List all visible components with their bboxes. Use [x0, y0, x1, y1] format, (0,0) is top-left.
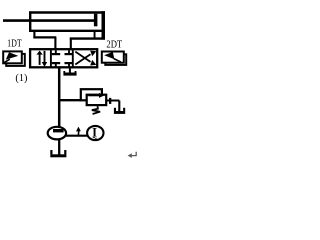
wire right jog down to valve — [70, 38, 72, 51]
valve divider right — [72, 49, 74, 67]
relief valve flow arrow — [89, 94, 100, 96]
solenoid 1DT box — [3, 51, 22, 63]
relief valve outlet stub — [109, 98, 111, 104]
shaft rotation arrow — [77, 131, 80, 137]
tank at relief valve outlet — [114, 111, 125, 114]
svg-text:(1): (1) — [15, 72, 27, 84]
cylinder bottom wall — [29, 30, 105, 32]
svg-text:1DT: 1DT — [7, 38, 22, 50]
center position blocked port bottom-left — [55, 64, 57, 67]
motor circle — [87, 126, 103, 140]
cylinder right end wall — [102, 11, 106, 39]
relief valve back square — [81, 89, 102, 100]
pump circle — [48, 127, 66, 140]
cylinder left end cap — [29, 11, 31, 32]
tank at pump suction — [50, 154, 66, 157]
right position crossed arrow 1 — [75, 54, 90, 64]
solenoid 2DT slash arrow — [114, 59, 121, 62]
wire valve T-port to tank — [69, 67, 71, 72]
svg-text:2DT: 2DT — [106, 39, 122, 51]
right position crossed arrow 2 — [75, 52, 90, 62]
wire left jog horizontal — [33, 36, 56, 38]
solenoid 2DT shadow box — [105, 54, 126, 65]
valve divider left — [50, 49, 52, 67]
cylinder piston rod — [3, 19, 95, 22]
wire left jog down to valve — [54, 37, 56, 50]
wire valve P-port to pump — [58, 67, 61, 127]
cylinder piston — [94, 14, 98, 27]
solenoid 1DT slash arrow — [4, 59, 10, 62]
center position blocked port top-left — [55, 50, 57, 53]
tank at valve T-port — [63, 73, 76, 76]
relief valve spring — [92, 106, 100, 114]
wire branch to relief valve — [59, 99, 81, 101]
center position blocked port top-right — [68, 50, 70, 53]
left position down arrow — [44, 51, 46, 62]
paragraph return mark — [128, 152, 137, 158]
solenoid 1DT shadow box — [6, 54, 25, 66]
wire pump suction to tank — [58, 140, 60, 155]
pump inner bar — [53, 129, 64, 132]
wire relief valve outlet — [106, 101, 119, 112]
left position up arrow — [39, 55, 41, 65]
center position blocked port bottom-right — [68, 64, 70, 67]
relief valve front square — [87, 95, 107, 105]
valve body (3-position 4-way) — [30, 49, 97, 67]
solenoid 2DT box — [102, 52, 124, 63]
wire cylinder left port down — [33, 31, 35, 38]
cylinder right port box left edge — [94, 31, 96, 39]
drive shaft pump to motor — [66, 135, 88, 137]
cylinder top wall — [29, 11, 105, 13]
wire right port jog horizontal — [70, 37, 105, 39]
